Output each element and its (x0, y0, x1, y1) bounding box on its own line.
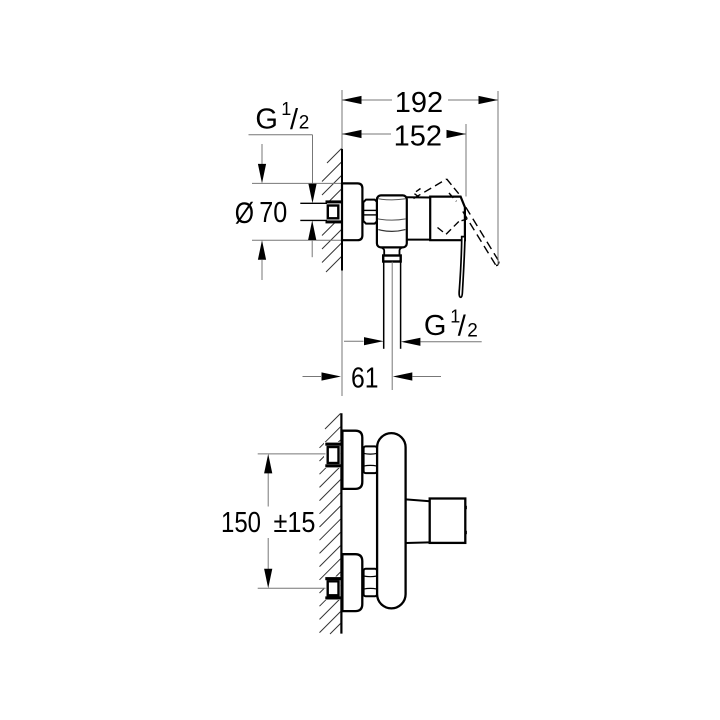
svg-text:2: 2 (299, 113, 310, 134)
svg-text:70: 70 (259, 197, 287, 229)
svg-text:G: G (424, 310, 447, 342)
svg-text:/: / (290, 104, 299, 136)
svg-text:192: 192 (395, 87, 443, 119)
svg-text:152: 152 (394, 121, 442, 153)
svg-text:Ø: Ø (235, 196, 254, 230)
svg-text:±15: ±15 (274, 507, 316, 539)
svg-text:61: 61 (351, 363, 379, 395)
svg-text:G: G (255, 104, 278, 136)
svg-text:2: 2 (467, 321, 478, 342)
svg-text:150: 150 (221, 507, 261, 539)
svg-text:/: / (458, 311, 467, 343)
